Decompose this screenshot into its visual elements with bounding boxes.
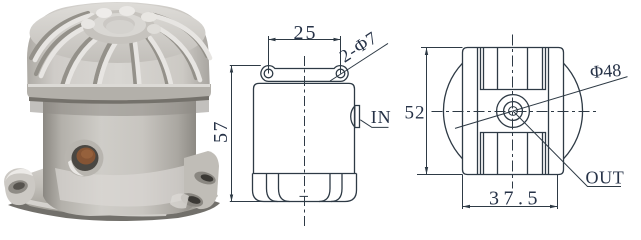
photo: hole bevel bright arc (68, 160, 84, 176)
photo: hole on body: outer bevel (65, 140, 104, 177)
photo: left ear top highlight (5, 169, 33, 182)
photo: base front highlight (22, 198, 168, 216)
arrow 37.5 right (550, 205, 558, 208)
cap rib curve 1 (267, 174, 278, 202)
37.5 ext right (557, 175, 559, 210)
photo: left ear hole (7, 178, 30, 195)
square outline (463, 48, 564, 175)
2-phi7 leader (330, 43, 388, 81)
25 dim line (269, 39, 341, 41)
photo: cap main (27, 2, 210, 100)
photo: left ear (4, 168, 35, 205)
svg-text:OUT: OUT (586, 168, 625, 188)
arrow 57 bottom (230, 195, 233, 202)
centerline vertical (front view) (304, 56, 306, 226)
52 dim extension top (421, 47, 463, 49)
svg-text:IN: IN (371, 107, 392, 127)
photo: disc bumps (81, 19, 95, 29)
photo: body lower sheen (55, 164, 190, 207)
cap rib curve 2 (279, 174, 290, 202)
cap rib curve 3 (331, 174, 342, 202)
photo: base slab (15, 154, 218, 216)
arrow 25 left (269, 38, 276, 41)
svg-text:57: 57 (210, 120, 232, 143)
hole circle left (264, 69, 273, 78)
top hatch rect (481, 48, 546, 90)
centerline vertical (top view) (512, 35, 514, 189)
svg-text:25: 25 (294, 22, 318, 44)
52 dim line (426, 48, 428, 175)
IN leader (360, 120, 388, 128)
centerline horizontal (top view) (432, 111, 598, 113)
svg-text:52: 52 (405, 103, 426, 124)
57 dim top extension (230, 65, 261, 67)
svg-text:Φ48: Φ48 (589, 60, 621, 82)
cap outline (253, 174, 357, 202)
photo: right ear hole lower (179, 191, 205, 210)
photo: cap rim bottom dark line (29, 96, 209, 104)
IN boss (355, 106, 360, 128)
photo: shadow under base (8, 197, 220, 221)
photo: right ear (on top of body) (184, 151, 219, 209)
37.5 ext left (462, 175, 464, 210)
photo: cap rib highlights (35, 15, 210, 93)
OUT leader (513, 111, 621, 187)
phi48 leader (455, 77, 628, 129)
centerline tick (front view) (300, 195, 309, 197)
52 dim extension bottom (417, 174, 463, 176)
photo: hole brown core (77, 148, 96, 165)
57 dim bottom extension (230, 201, 264, 203)
svg-text:2-Φ7: 2-Φ7 (336, 27, 381, 66)
inner vertical right (548, 48, 550, 175)
bottom hatch rect (481, 133, 546, 175)
arrow 37.5 left (463, 205, 471, 208)
flange dog-bone (261, 66, 348, 82)
arrow 57 top (230, 66, 233, 73)
cap rib curve 4 (319, 174, 330, 202)
body outline (254, 83, 355, 173)
arrow 52 bottom (425, 167, 428, 175)
photo: cap rim top light line (28, 84, 210, 87)
big circle left arc (443, 63, 462, 159)
arrow 52 top (425, 48, 428, 56)
photo: body cylinder (43, 96, 196, 216)
big circle right arc (564, 63, 583, 159)
centre circle outer (497, 95, 530, 128)
37.5 dim line (463, 206, 558, 208)
photo: cap top face (30, 3, 206, 63)
25 dim extension left (268, 36, 270, 74)
photo: hole recess (72, 145, 99, 171)
photo: cap rib shadows (31, 13, 207, 91)
photo: right ear hole upper (193, 169, 217, 187)
centre circle small (509, 107, 518, 116)
centre circle middle (504, 102, 523, 121)
inner vertical left (477, 48, 479, 175)
photo: cap/body seam shadow (30, 99, 209, 116)
photo: cap rim band (27, 84, 211, 100)
hole circle right (336, 69, 345, 78)
svg-text:37.5: 37.5 (489, 187, 542, 209)
photo: cap centre disc (83, 10, 155, 44)
57 dim line (231, 66, 233, 202)
arrow 25 right (334, 38, 341, 41)
25 dim extension right (340, 36, 342, 74)
photo: right ear chamfer highlight (170, 194, 189, 209)
